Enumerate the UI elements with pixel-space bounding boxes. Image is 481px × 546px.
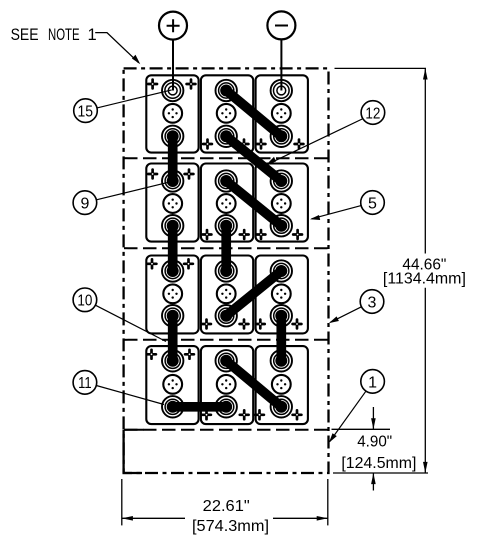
cable row2 B1bottom to row3 B1top	[168, 226, 178, 271]
cable row3 B3bottom to row4 B3top	[276, 316, 286, 361]
positive lead wire	[172, 40, 174, 91]
svg-text:15: 15	[78, 103, 94, 120]
svg-text:5: 5	[368, 195, 377, 212]
shelf line 3	[124, 339, 329, 341]
tray top line	[124, 429, 329, 431]
svg-text:3: 3	[368, 294, 377, 311]
svg-text:10: 10	[77, 293, 92, 310]
svg-text:9: 9	[80, 195, 89, 212]
cable row1 B2top to B3bottom	[226, 91, 281, 137]
svg-text:1: 1	[88, 26, 97, 44]
height dimension 44.66in	[333, 68, 466, 473]
callout 5	[310, 191, 384, 220]
svg-text:SEE: SEE	[11, 26, 39, 44]
callout 3	[329, 290, 384, 323]
callout 15	[74, 90, 172, 122]
cable row4 B2top to B3bottom	[226, 361, 281, 407]
rack outline (phantom)	[123, 68, 329, 473]
cable row2 B2top to B3bottom	[226, 181, 281, 226]
terminal lug blobs	[167, 85, 288, 413]
battery B2 row3	[201, 256, 253, 334]
battery B1 row1	[146, 75, 198, 152]
svg-text:1: 1	[368, 374, 377, 391]
battery B2 row1	[201, 75, 253, 152]
battery B1 row3	[146, 256, 198, 334]
cable row3 B2bottom to B3top	[226, 271, 281, 316]
battery B3 row1	[256, 75, 308, 152]
cable row4 B1bottom to B2bottom	[173, 402, 227, 412]
svg-text:[1134.4mm]: [1134.4mm]	[383, 271, 466, 288]
callout 9	[73, 182, 171, 215]
cable row1 B2bottom to row2 B3top	[226, 136, 281, 181]
battery B3 row2	[256, 164, 308, 242]
tray height dimension 4.90in	[332, 407, 417, 491]
battery B2 row4	[201, 346, 253, 424]
negative lead wire	[280, 39, 282, 90]
shelf line 2	[124, 247, 329, 249]
cable row1 B1bottom to row2 B1top	[168, 136, 178, 181]
callout 11	[73, 371, 164, 405]
callout 10	[73, 288, 166, 342]
battery B1 row4	[146, 346, 198, 424]
svg-text:22.61": 22.61"	[203, 498, 250, 515]
see note 1 label	[11, 26, 141, 64]
battery B2 row2	[201, 164, 253, 242]
callout 12	[266, 101, 385, 165]
svg-text:12: 12	[365, 106, 380, 123]
positive terminal symbol	[159, 12, 187, 40]
battery B1 row2	[146, 164, 198, 242]
svg-text:NOTE: NOTE	[48, 26, 80, 44]
shelf line 1	[124, 157, 329, 159]
svg-text:11: 11	[78, 375, 92, 392]
battery B3 row4	[255, 346, 308, 424]
svg-text:[574.3mm]: [574.3mm]	[192, 518, 269, 535]
width dimension 22.61in	[122, 479, 328, 535]
cable row3 B1bottom to row4 B1top	[168, 316, 178, 361]
svg-text:[124.5mm]: [124.5mm]	[341, 455, 416, 472]
cable row2 B2bottom to row3 B2top	[221, 226, 231, 271]
svg-text:4.90": 4.90"	[357, 434, 392, 451]
battery B3 row3	[256, 256, 308, 334]
callout 1	[329, 370, 385, 443]
negative terminal symbol	[267, 11, 295, 39]
